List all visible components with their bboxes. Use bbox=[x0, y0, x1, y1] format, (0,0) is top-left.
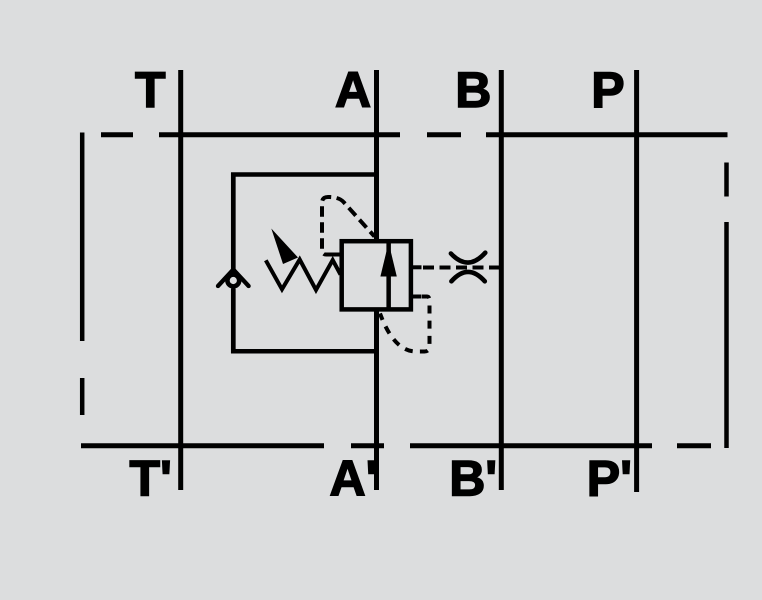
port line B bbox=[499, 70, 504, 490]
pilot line to B (dashed through orifice) bbox=[423, 266, 499, 270]
check valve V1 bbox=[218, 270, 249, 287]
svg-text:P': P' bbox=[587, 451, 632, 507]
relief valve envelope U1 bbox=[342, 241, 411, 309]
svg-text:T': T' bbox=[130, 451, 172, 507]
port stub right upper bbox=[412, 265, 422, 269]
top boundary line solid T-A bbox=[159, 132, 400, 137]
bottom boundary line solid left bbox=[81, 443, 324, 448]
bottom boundary line solid B'-P' bbox=[410, 443, 652, 448]
svg-text:T: T bbox=[135, 62, 166, 118]
pilot line top (dashed) bbox=[322, 197, 375, 255]
flow arrow inside envelope bbox=[380, 243, 396, 309]
bottom boundary line right dash bbox=[677, 443, 711, 448]
top boundary line left dash bbox=[101, 132, 133, 137]
svg-text:A': A' bbox=[330, 451, 378, 507]
pilot drain line bottom (dashed) bbox=[380, 297, 430, 352]
port stub left bbox=[334, 253, 342, 257]
wire: valve loop left lower bbox=[231, 289, 236, 354]
svg-text:P: P bbox=[591, 62, 624, 118]
wire: valve loop bottom bbox=[231, 349, 377, 354]
left boundary dashed vertical bbox=[80, 133, 85, 416]
bottom boundary line dash at A' bbox=[351, 443, 384, 448]
top boundary line solid B-P-right bbox=[486, 132, 728, 137]
wire: valve loop left upper bbox=[231, 173, 236, 273]
adjustment arrow bbox=[271, 229, 298, 265]
port line P bbox=[634, 70, 639, 492]
port line A lower segment bbox=[374, 312, 379, 491]
spring bbox=[266, 260, 341, 291]
svg-text:B: B bbox=[455, 62, 491, 118]
top boundary line dash A-B bbox=[427, 132, 461, 137]
port stub right lower bbox=[412, 295, 422, 299]
wire: valve loop top bbox=[231, 172, 377, 177]
port line A upper segment bbox=[374, 70, 379, 239]
port line T bbox=[178, 70, 183, 490]
svg-text:B': B' bbox=[449, 451, 497, 507]
orifice R1 bbox=[451, 253, 485, 282]
svg-text:A: A bbox=[335, 62, 371, 118]
right boundary dashed vertical bbox=[724, 163, 729, 449]
